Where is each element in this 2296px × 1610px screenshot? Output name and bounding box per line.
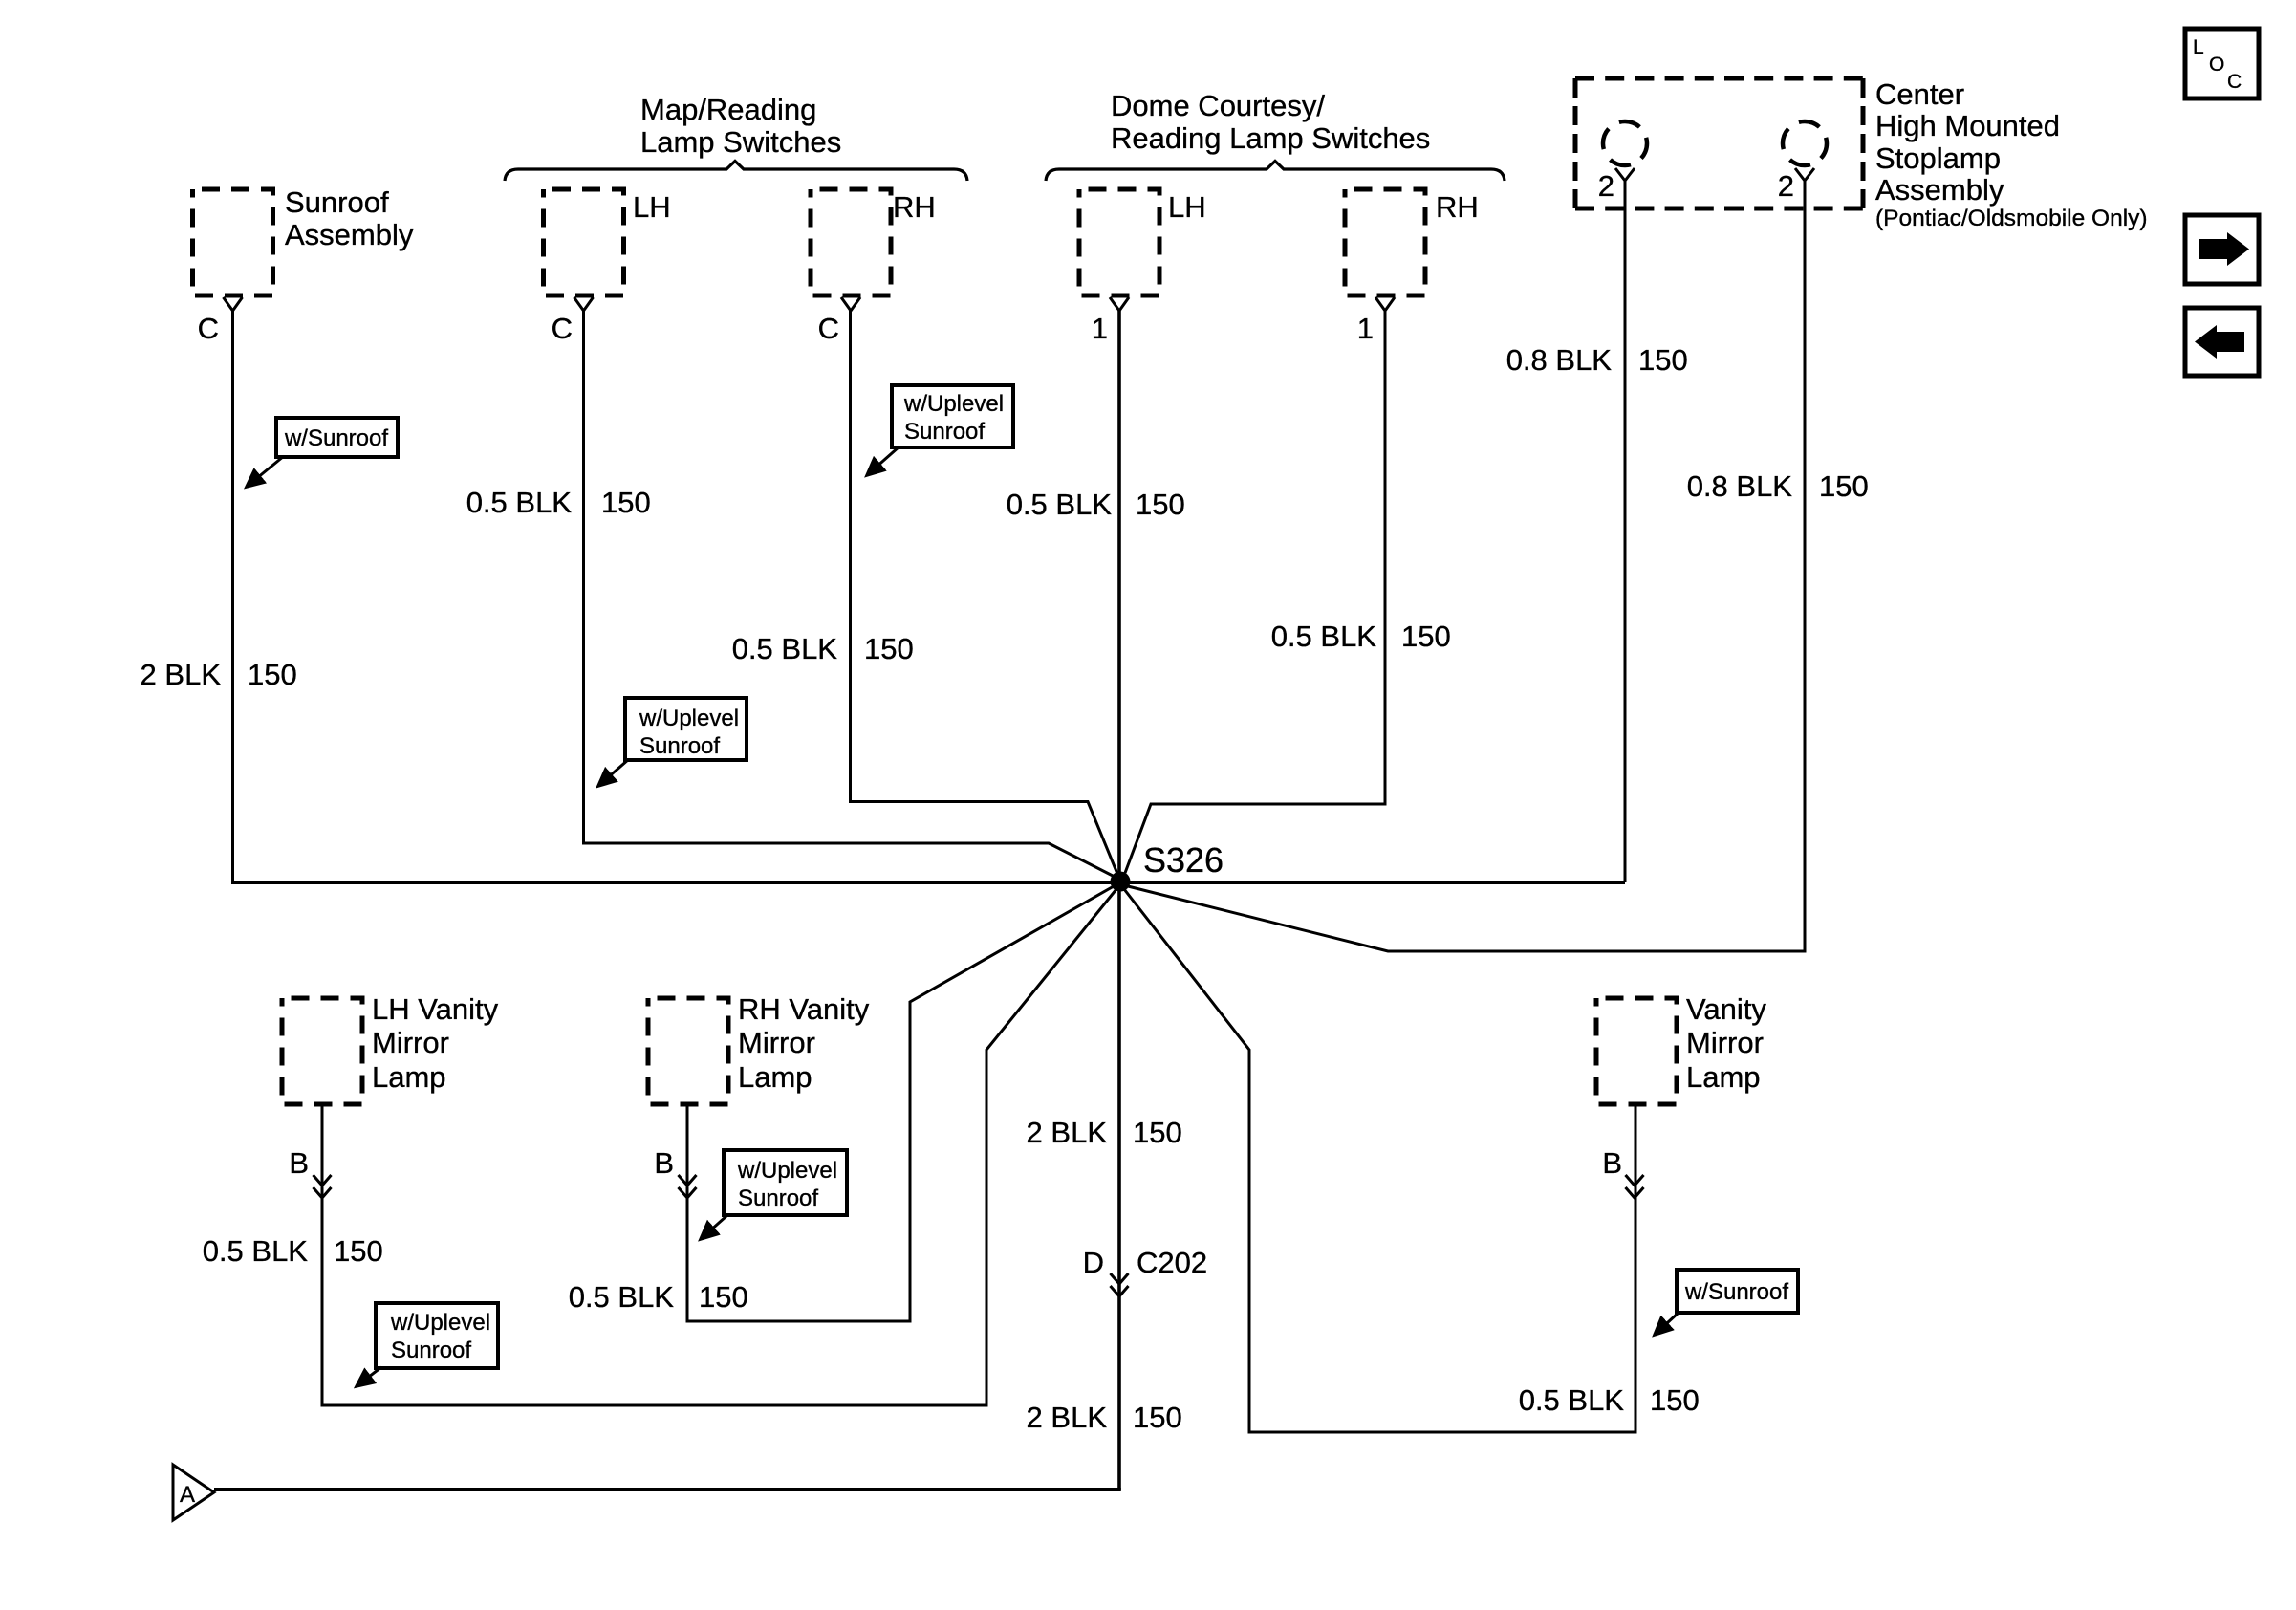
svg-text:Center: Center xyxy=(1875,77,1964,111)
svg-text:2 BLK: 2 BLK xyxy=(1027,1116,1108,1149)
wire stoplamp bulb 2 to splice (0.8 BLK 150) xyxy=(1128,181,1805,951)
label C xyxy=(552,312,573,345)
svg-text:LH Vanity: LH Vanity xyxy=(372,992,499,1026)
svg-text:0.5 BLK: 0.5 BLK xyxy=(203,1234,309,1268)
svg-text:B: B xyxy=(654,1146,674,1180)
svg-text:Lamp: Lamp xyxy=(738,1060,812,1094)
pin C fork of map LH switch xyxy=(574,297,594,311)
svg-text:Lamp: Lamp xyxy=(372,1060,446,1094)
svg-text:B: B xyxy=(1602,1146,1622,1180)
ground reference triangle A xyxy=(173,1465,214,1520)
value label 0.5 BLK 150 (RH vanity wire) xyxy=(569,1280,748,1314)
wire right vanity mirror lamp to splice (0.5 BLK 150) xyxy=(1124,889,1635,1432)
wire stoplamp bulb 1 to bus (0.8 BLK 150) xyxy=(1624,181,1627,882)
label B xyxy=(654,1146,674,1180)
svg-text:150: 150 xyxy=(334,1234,383,1268)
svg-text:150: 150 xyxy=(1133,1401,1182,1434)
label LH Vanity Mirror Lamp xyxy=(372,992,499,1094)
connector pin B chevrons (right vanity wire) xyxy=(1626,1175,1644,1198)
value label 0.8 BLK 150 (stoplamp bulb 1 wire) xyxy=(1506,343,1688,377)
LOC reference box xyxy=(2185,29,2259,98)
component Vanity Mirror Lamp dashed box (right) xyxy=(1596,998,1677,1104)
label 1 xyxy=(1092,312,1108,345)
component Sunroof Assembly dashed box xyxy=(193,189,273,295)
pin 2 fork of stoplamp bulb 2 xyxy=(1795,168,1814,181)
callout w/Sunroof (right vanity wire) xyxy=(1655,1270,1798,1335)
callout w/Uplevel Sunroof (map LH wire) xyxy=(598,698,747,786)
svg-text:S326: S326 xyxy=(1143,840,1224,880)
svg-text:1: 1 xyxy=(1357,312,1374,345)
svg-text:High Mounted: High Mounted xyxy=(1875,109,2060,142)
label LH xyxy=(1168,190,1206,224)
svg-text:w/Sunroof: w/Sunroof xyxy=(1684,1279,1788,1305)
svg-text:Sunroof: Sunroof xyxy=(391,1338,471,1363)
svg-text:2: 2 xyxy=(1598,169,1614,203)
svg-text:0.8 BLK: 0.8 BLK xyxy=(1687,469,1793,503)
svg-text:0.5 BLK: 0.5 BLK xyxy=(1519,1383,1625,1417)
svg-text:C: C xyxy=(552,312,573,345)
svg-text:D: D xyxy=(1083,1246,1104,1279)
svg-text:RH Vanity: RH Vanity xyxy=(738,992,870,1026)
svg-text:Vanity: Vanity xyxy=(1686,992,1766,1026)
svg-text:150: 150 xyxy=(699,1280,748,1314)
splice S326 junction dot xyxy=(1111,872,1131,892)
svg-text:Assembly: Assembly xyxy=(1875,173,2004,207)
svg-text:(Pontiac/Oldsmobile Only): (Pontiac/Oldsmobile Only) xyxy=(1875,206,2148,231)
svg-text:Sunroof: Sunroof xyxy=(738,1186,818,1211)
component LH Vanity Mirror Lamp dashed box xyxy=(282,998,362,1104)
svg-text:0.5 BLK: 0.5 BLK xyxy=(569,1280,675,1314)
label Map/Reading Lamp Switches heading xyxy=(640,93,841,159)
label C202 xyxy=(1137,1246,1207,1279)
value label 2 BLK 150 (trunk above C202) xyxy=(1027,1116,1182,1149)
svg-text:150: 150 xyxy=(1136,488,1185,521)
svg-text:w/Uplevel: w/Uplevel xyxy=(903,391,1004,417)
label 2 xyxy=(1778,169,1794,203)
svg-text:150: 150 xyxy=(601,486,651,519)
connector D C202 chevrons (trunk wire) xyxy=(1111,1273,1129,1296)
svg-text:150: 150 xyxy=(1133,1116,1182,1149)
label Dome Courtesy/Reading Lamp Switches heading xyxy=(1111,89,1430,155)
right arrow box xyxy=(2185,215,2259,284)
component Map/Reading RH switch dashed box xyxy=(811,189,891,295)
value label 0.5 BLK 150 (map RH wire) xyxy=(732,632,914,665)
left arrow box xyxy=(2185,308,2259,376)
label Sunroof Assembly xyxy=(285,185,414,251)
svg-text:0.5 BLK: 0.5 BLK xyxy=(466,486,573,519)
svg-text:LH: LH xyxy=(1168,190,1206,224)
svg-text:150: 150 xyxy=(1819,469,1869,503)
svg-text:RH: RH xyxy=(1436,190,1479,224)
svg-text:Sunroof: Sunroof xyxy=(639,733,720,759)
wire RH vanity mirror lamp to splice (0.5 BLK 150) xyxy=(687,886,1114,1321)
svg-text:RH: RH xyxy=(893,190,936,224)
svg-text:150: 150 xyxy=(1401,620,1451,653)
svg-text:1: 1 xyxy=(1092,312,1108,345)
svg-text:150: 150 xyxy=(1650,1383,1700,1417)
wire dome RH switch to splice (0.5 BLK 150) xyxy=(1125,311,1385,873)
wire map LH switch to splice (0.5 BLK 150) xyxy=(584,311,1116,877)
callout w/Sunroof (sunroof wire) xyxy=(247,418,398,487)
value label 0.5 BLK 150 (LH vanity wire) xyxy=(203,1234,383,1268)
callout w/Uplevel Sunroof (RH vanity wire) xyxy=(701,1150,847,1239)
pin C fork of sunroof assembly xyxy=(224,297,243,311)
label D xyxy=(1083,1246,1104,1279)
svg-text:Lamp Switches: Lamp Switches xyxy=(640,125,841,159)
svg-text:150: 150 xyxy=(248,658,297,691)
wire map RH switch to splice (0.5 BLK 150) xyxy=(851,311,1118,874)
pin 1 fork of dome RH switch xyxy=(1375,297,1395,311)
connector pin B chevrons (RH vanity wire) xyxy=(679,1175,697,1198)
wire sunroof assembly vertical (2 BLK 150) xyxy=(231,311,234,882)
label RH xyxy=(893,190,936,224)
callout w/Uplevel Sunroof (map RH wire) xyxy=(867,385,1013,475)
svg-text:Mirror: Mirror xyxy=(1686,1026,1764,1059)
pin C fork of map RH switch xyxy=(841,297,860,311)
svg-text:A: A xyxy=(180,1482,195,1508)
label RH Vanity Mirror Lamp xyxy=(738,992,870,1094)
svg-text:w/Sunroof: w/Sunroof xyxy=(284,425,388,451)
svg-text:C: C xyxy=(2227,71,2242,93)
svg-text:w/Uplevel: w/Uplevel xyxy=(639,706,739,731)
svg-text:0.5 BLK: 0.5 BLK xyxy=(1271,620,1377,653)
svg-text:C: C xyxy=(818,312,839,345)
value label 0.5 BLK 150 (dome LH wire) xyxy=(1007,488,1185,521)
svg-text:0.5 BLK: 0.5 BLK xyxy=(1007,488,1113,521)
component Map/Reading LH switch dashed box xyxy=(544,189,624,295)
svg-text:Dome Courtesy/: Dome Courtesy/ xyxy=(1111,89,1325,122)
svg-text:Sunroof: Sunroof xyxy=(904,419,985,445)
svg-text:w/Uplevel: w/Uplevel xyxy=(390,1310,490,1336)
svg-text:150: 150 xyxy=(864,632,914,665)
label C xyxy=(198,312,219,345)
value label 2 BLK 150 (trunk below C202) xyxy=(1027,1401,1182,1434)
svg-text:0.5 BLK: 0.5 BLK xyxy=(732,632,838,665)
wire ground feed A line xyxy=(214,1488,1121,1491)
value label 0.5 BLK 150 (dome RH wire) xyxy=(1271,620,1451,653)
brace over Map/Reading Lamp Switches xyxy=(505,162,967,182)
component Dome Courtesy RH switch dashed box xyxy=(1345,189,1425,295)
svg-text:O: O xyxy=(2209,54,2224,76)
svg-text:Mirror: Mirror xyxy=(372,1026,449,1059)
label Center High Mounted Stoplamp Assembly xyxy=(1875,77,2148,231)
label B xyxy=(1602,1146,1622,1180)
label 1 xyxy=(1357,312,1374,345)
svg-text:B: B xyxy=(289,1146,309,1180)
pin 2 fork of stoplamp bulb 1 xyxy=(1615,168,1635,181)
svg-text:2 BLK: 2 BLK xyxy=(141,658,222,691)
svg-text:Lamp: Lamp xyxy=(1686,1060,1761,1094)
svg-text:Assembly: Assembly xyxy=(285,218,414,251)
pin 1 fork of dome LH switch xyxy=(1110,297,1129,311)
lamp bulb symbol 1 (dashed circle) xyxy=(1603,121,1647,165)
value label 0.5 BLK 150 (right vanity wire) xyxy=(1519,1383,1700,1417)
label S326 xyxy=(1143,840,1224,880)
label 2 xyxy=(1598,169,1614,203)
label B xyxy=(289,1146,309,1180)
svg-text:Reading Lamp Switches: Reading Lamp Switches xyxy=(1111,121,1430,155)
label RH xyxy=(1436,190,1479,224)
svg-text:LH: LH xyxy=(633,190,671,224)
svg-text:150: 150 xyxy=(1638,343,1688,377)
svg-text:C: C xyxy=(198,312,219,345)
callout w/Uplevel Sunroof (LH vanity wire) xyxy=(357,1303,498,1386)
label LH xyxy=(633,190,671,224)
component RH Vanity Mirror Lamp dashed box xyxy=(648,998,728,1104)
svg-text:Map/Reading: Map/Reading xyxy=(640,93,816,126)
svg-text:Stoplamp: Stoplamp xyxy=(1875,141,2001,175)
label C xyxy=(818,312,839,345)
value label 2 BLK 150 (sunroof wire) xyxy=(141,658,297,691)
value label 0.5 BLK 150 (map LH wire) xyxy=(466,486,651,519)
brace over Dome Courtesy/Reading Lamp Switches xyxy=(1046,162,1505,182)
wire main horizontal bus through S326 xyxy=(231,881,1625,884)
connector pin B chevrons (LH vanity wire) xyxy=(314,1175,332,1198)
svg-text:0.8 BLK: 0.8 BLK xyxy=(1506,343,1613,377)
lamp bulb symbol 2 (dashed circle) xyxy=(1783,121,1827,165)
svg-text:Sunroof: Sunroof xyxy=(285,185,389,219)
wire LH vanity mirror lamp to splice (0.5 BLK 150) xyxy=(322,889,1116,1405)
component Center High Mounted Stoplamp Assembly dashed box xyxy=(1575,78,1863,208)
svg-text:w/Uplevel: w/Uplevel xyxy=(737,1158,837,1184)
label Vanity Mirror Lamp xyxy=(1686,992,1766,1094)
value label 0.8 BLK 150 (stoplamp bulb 2 wire) xyxy=(1687,469,1869,503)
component Dome Courtesy LH switch dashed box xyxy=(1079,189,1159,295)
svg-text:L: L xyxy=(2193,36,2204,58)
svg-text:2 BLK: 2 BLK xyxy=(1027,1401,1108,1434)
svg-text:C202: C202 xyxy=(1137,1246,1207,1279)
svg-text:Mirror: Mirror xyxy=(738,1026,815,1059)
wire dome LH switch trunk through splice to A line xyxy=(1117,311,1121,1490)
svg-text:2: 2 xyxy=(1778,169,1794,203)
